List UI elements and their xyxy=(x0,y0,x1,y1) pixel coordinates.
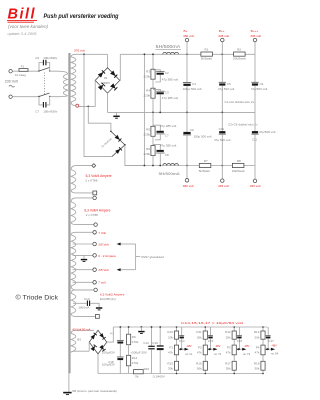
ground at C10 xyxy=(90,303,102,310)
svg-text:C1+C2 dubbel elco 2x: C1+C2 dubbel elco 2x xyxy=(225,100,255,104)
capacitor C4 xyxy=(183,54,202,112)
ground bus symbol xyxy=(113,112,119,118)
svg-text:47µ 500 volt: 47µ 500 volt xyxy=(214,138,231,142)
svg-text:-48V: -48V xyxy=(215,344,221,348)
ground at 0-2A tap xyxy=(81,255,87,261)
HV secondary winding xyxy=(71,54,76,105)
arrow 3/5V b xyxy=(117,268,121,271)
primary winding xyxy=(63,74,67,96)
wire tap 0-2A xyxy=(73,254,93,256)
node P4 out xyxy=(267,348,269,350)
svg-text:6,3 Volt/4 Ampere: 6,3 Volt/4 Ampere xyxy=(84,208,110,212)
node C8 wire xyxy=(159,165,161,167)
capacitor C5 xyxy=(218,54,235,112)
wire B3 plus xyxy=(107,327,114,342)
potentiometer P3 xyxy=(226,345,237,355)
svg-text:50k: 50k xyxy=(197,366,202,370)
capacitor C12 xyxy=(102,357,124,374)
svg-text:P2: P2 xyxy=(198,345,202,349)
diode B3 top-left xyxy=(91,333,97,339)
terminal square W6 bottom xyxy=(96,315,100,319)
terminal circle W4 top xyxy=(93,196,97,200)
wire ch2 main xyxy=(125,165,255,167)
wire P4 wiper out xyxy=(265,348,271,350)
node link top xyxy=(144,53,146,55)
node C rail top xyxy=(119,326,121,328)
svg-text:R14: R14 xyxy=(132,356,138,360)
capacitor C2 xyxy=(153,70,178,82)
diode B3 bottom-left xyxy=(91,345,97,351)
svg-text:100µ/63V: 100µ/63V xyxy=(102,363,115,367)
resistor R7 xyxy=(199,159,211,173)
svg-text:220k: 220k xyxy=(143,152,150,156)
svg-text:1000mA: 1000mA xyxy=(78,306,89,310)
svg-text:C11: C11 xyxy=(252,138,258,142)
svg-text:C10: C10 xyxy=(84,297,90,301)
wire col4 xyxy=(262,327,264,374)
node P1 out xyxy=(181,348,183,350)
svg-text:R8: R8 xyxy=(237,159,241,163)
svg-text:47k: 47k xyxy=(197,350,202,354)
svg-text:47µ 385 volt: 47µ 385 volt xyxy=(160,124,177,128)
svg-text:345 volt: 345 volt xyxy=(250,184,261,188)
svg-text:445 volt: 445 volt xyxy=(218,34,229,38)
svg-text:220k: 220k xyxy=(143,75,150,79)
svg-text:no 54: no 54 xyxy=(271,352,279,356)
wire mains top xyxy=(12,70,39,72)
resistor R2 xyxy=(233,48,246,61)
diode B1 top-right xyxy=(110,71,117,78)
heater winding W4 xyxy=(71,198,94,225)
svg-text:1A traag: 1A traag xyxy=(15,73,27,77)
mechanical link dashed xyxy=(43,73,45,96)
filament winding W5 xyxy=(71,232,94,290)
node col1 bottom xyxy=(176,373,178,375)
wire bridge top vertex xyxy=(107,54,109,67)
terminal circle 7V top xyxy=(93,231,97,235)
svg-text:C10: C10 xyxy=(219,127,225,131)
inductor L2 5H/500mA xyxy=(159,164,181,176)
wire divider chain top xyxy=(152,54,154,69)
wire ground bus xyxy=(108,111,256,113)
node col4 bottom xyxy=(262,373,264,375)
capacitor C3 xyxy=(153,89,178,112)
svg-text:R18: R18 xyxy=(254,362,260,366)
node ch2 B+ xyxy=(186,165,188,167)
wire 0V to diode D1 xyxy=(88,106,111,131)
svg-text:0 - 2 Ampere: 0 - 2 Ampere xyxy=(98,254,116,258)
switch S1b xyxy=(38,93,50,97)
resistor R18 xyxy=(254,361,265,370)
resistor R15 xyxy=(167,361,178,370)
potentiometer P1 xyxy=(168,345,179,355)
svg-text:10k/5watt: 10k/5watt xyxy=(233,57,246,61)
node C13 top xyxy=(151,326,153,328)
svg-text:47µ 385 volt: 47µ 385 volt xyxy=(160,143,177,147)
svg-text:C3: C3 xyxy=(165,90,169,94)
svg-text:480 volt: 480 volt xyxy=(183,34,194,38)
svg-text:Bill: Bill xyxy=(8,7,36,23)
svg-text:20k: 20k xyxy=(197,335,202,339)
svg-text:47µ 500 volt: 47µ 500 volt xyxy=(218,87,235,91)
node B++ xyxy=(221,53,223,55)
svg-text:345 volt: 345 volt xyxy=(250,34,261,38)
terminal mains L xyxy=(9,70,12,73)
svg-text:B+++: B+++ xyxy=(251,29,259,33)
svg-text:R12: R12 xyxy=(225,330,231,334)
terminal circle W5 end xyxy=(94,288,98,292)
svg-text:6SN7 gloeidraad: 6SN7 gloeidraad xyxy=(141,255,164,259)
resistor R13 xyxy=(254,330,265,339)
node link ch2 xyxy=(144,165,146,167)
wire tap 3/5V b xyxy=(73,269,93,271)
wire R9-R14 xyxy=(128,345,130,356)
wire LV bottom bus xyxy=(98,373,263,375)
node junction 376V xyxy=(83,53,85,55)
capacitor C16 xyxy=(237,327,243,349)
terminal mains N xyxy=(9,95,12,98)
wire 6SN7 vertical xyxy=(135,244,137,270)
svg-text:© Triode Dick: © Triode Dick xyxy=(16,294,59,302)
node R9 top xyxy=(128,326,130,328)
arrow out 2 xyxy=(213,348,217,351)
wire link to channel 2 xyxy=(143,54,145,165)
resistor R10 xyxy=(167,330,178,339)
wire P3 wiper out xyxy=(236,348,242,350)
svg-text:5k: 5k xyxy=(135,375,139,379)
wire tap 7V bottom xyxy=(73,281,93,283)
svg-text:R16: R16 xyxy=(144,367,150,371)
potentiometer P4 xyxy=(255,345,266,355)
wire 6SN7 stub xyxy=(136,255,141,257)
svg-text:480 volt: 480 volt xyxy=(183,184,194,188)
terminal B+++ xyxy=(250,29,261,54)
svg-text:3/5 Volt: 3/5 Volt xyxy=(98,268,108,272)
svg-text:F1: F1 xyxy=(21,65,25,69)
wire D output down xyxy=(125,145,144,166)
wire B3 minus down xyxy=(97,354,99,374)
svg-text:R17: R17 xyxy=(225,362,231,366)
resistor R11 xyxy=(196,330,207,339)
capacitor C15 xyxy=(208,327,214,349)
svg-text:30k: 30k xyxy=(226,366,231,370)
diode D1 xyxy=(111,131,125,145)
node C19 top xyxy=(159,326,161,328)
capacitor C14 xyxy=(179,327,185,349)
node chain2 wire xyxy=(152,165,154,167)
diode B3 bottom-right xyxy=(99,345,105,351)
capacitor C10 xyxy=(73,297,90,310)
svg-text:B3: B3 xyxy=(77,337,81,341)
svg-text:ECC88 (2x): ECC88 (2x) xyxy=(100,297,116,301)
svg-text:R13: R13 xyxy=(254,330,260,334)
wire 3/5V to 6SN7 b xyxy=(120,269,135,271)
terminal ch2 345V xyxy=(250,166,261,189)
svg-text:-48V: -48V xyxy=(271,344,277,348)
terminal ch2 445V xyxy=(218,166,229,189)
diode D2 xyxy=(112,145,125,157)
svg-text:update 3-4-2005: update 3-4-2005 xyxy=(8,32,37,36)
svg-text:220k: 220k xyxy=(143,133,150,137)
capacitor C6 100n/630V xyxy=(35,56,57,70)
svg-text:C5: C5 xyxy=(227,82,231,86)
svg-text:C4: C4 xyxy=(192,82,196,86)
svg-text:P1: P1 xyxy=(169,345,173,349)
node col1 top xyxy=(176,326,178,328)
capacitor C17 xyxy=(266,327,274,349)
svg-text:470k: 470k xyxy=(132,361,139,365)
resistor R6 xyxy=(143,146,155,156)
capacitor C7b xyxy=(153,124,176,140)
resistor R17 xyxy=(225,361,236,370)
node D cathode junction xyxy=(124,144,126,146)
LV winding W7 xyxy=(71,330,94,352)
svg-text:5H/500mA: 5H/500mA xyxy=(159,172,181,176)
svg-text:-48V: -48V xyxy=(244,344,250,348)
resistor R12 xyxy=(225,330,236,339)
wire LV top bus xyxy=(113,326,267,328)
title Bill xyxy=(7,7,37,23)
wire 3/5V to 6SN7 a xyxy=(120,243,135,245)
wire col2 xyxy=(204,327,206,374)
wire bridge left vertex down xyxy=(79,80,95,106)
wire P2 wiper out xyxy=(207,348,213,350)
resistor R14 xyxy=(127,355,139,373)
node C4 bus xyxy=(186,112,188,114)
svg-text:7 Volt: 7 Volt xyxy=(98,231,106,235)
terminal B++ xyxy=(218,29,229,54)
arrow 3/5V a xyxy=(117,243,121,246)
ground core xyxy=(63,393,71,395)
node chain top xyxy=(152,53,154,55)
node col2 top xyxy=(205,326,207,328)
svg-text:47k: 47k xyxy=(226,350,231,354)
resistor R5 xyxy=(143,126,155,136)
wire HV top to bridge xyxy=(76,53,108,55)
svg-text:C14,15,16,17 = 10µF/63 volt: C14,15,16,17 = 10µF/63 volt xyxy=(181,321,243,325)
terminal ch2 480V xyxy=(183,166,194,189)
svg-text:3/5 Volt: 3/5 Volt xyxy=(98,242,108,246)
capacitor C19 xyxy=(152,327,163,374)
svg-text:R15: R15 xyxy=(167,362,173,366)
svg-text:376 volt: 376 volt xyxy=(74,49,85,53)
svg-text:7 volt: 7 volt xyxy=(98,281,106,285)
wire chain mid xyxy=(152,79,154,88)
node D1 anode xyxy=(110,131,112,133)
svg-text:C8: C8 xyxy=(165,153,169,157)
svg-text:470k: 470k xyxy=(132,340,139,344)
svg-text:2 x KT88: 2 x KT88 xyxy=(86,213,98,217)
resistor R3 xyxy=(143,69,155,79)
capacitor C8 xyxy=(153,143,176,165)
node chain bus xyxy=(152,112,154,114)
svg-text:R16: R16 xyxy=(196,362,202,366)
svg-text:445 volt: 445 volt xyxy=(218,184,229,188)
svg-text:10k/5watt: 10k/5watt xyxy=(232,169,245,173)
resistor R16 xyxy=(134,367,150,379)
capacitor C9 xyxy=(183,112,212,165)
svg-text:R11: R11 xyxy=(196,330,202,334)
svg-text:C6: C6 xyxy=(35,56,39,60)
svg-text:C9: C9 xyxy=(190,128,194,132)
svg-text:20k: 20k xyxy=(168,335,173,339)
core ground wire xyxy=(68,373,70,392)
svg-text:R3: R3 xyxy=(146,70,150,74)
terminal diamond W3 top xyxy=(92,164,96,168)
svg-text:-48V: -48V xyxy=(186,344,192,348)
svg-text:C7: C7 xyxy=(35,109,39,113)
svg-text:C2: C2 xyxy=(165,71,169,75)
capacitor C11b rail xyxy=(102,327,124,357)
svg-text:C6: C6 xyxy=(260,82,264,86)
wire B3 left vertex xyxy=(88,342,90,351)
svg-text:C3+C4 dubbel elco 2x: C3+C4 dubbel elco 2x xyxy=(228,122,258,126)
resistor R1 xyxy=(201,48,213,61)
label ~ xyxy=(9,85,15,87)
diode B1 top-left xyxy=(98,70,105,77)
svg-text:R9: R9 xyxy=(132,335,136,339)
svg-text:100µ 500 volt: 100µ 500 volt xyxy=(193,135,211,139)
svg-text:P4: P4 xyxy=(256,345,260,349)
svg-text:+300µF 50V: +300µF 50V xyxy=(130,350,147,354)
svg-text:47µ/500 volt: 47µ/500 volt xyxy=(259,130,276,134)
svg-text:R5: R5 xyxy=(146,128,150,132)
svg-text:47k: 47k xyxy=(168,350,173,354)
node col3 bottom xyxy=(233,373,235,375)
bridge B1 outline xyxy=(95,68,120,93)
svg-text:100µ/63V: 100µ/63V xyxy=(102,350,115,354)
svg-text:230 Volt: 230 Volt xyxy=(5,80,18,84)
svg-text:100n/630v: 100n/630v xyxy=(43,56,58,60)
svg-text:30k: 30k xyxy=(168,366,173,370)
wire 376V to diode D2 xyxy=(84,54,112,156)
wire switch to primary bottom xyxy=(50,96,68,97)
terminal B+ xyxy=(183,29,194,54)
wire mains bottom xyxy=(12,96,39,98)
svg-text:100µ/ 500 volt: 100µ/ 500 volt xyxy=(183,87,202,91)
wire P1 wiper out xyxy=(179,348,185,350)
diode B3 top-right xyxy=(99,333,105,339)
svg-text:C16: C16 xyxy=(237,339,243,343)
wire chain 2 bottom xyxy=(152,156,154,166)
svg-text:47µ 385 volt: 47µ 385 volt xyxy=(162,96,179,100)
capacitor C7 100n/630V xyxy=(35,97,57,113)
terminal circle 7V bottom xyxy=(93,281,97,285)
switch S1a xyxy=(38,68,50,72)
svg-text:no 73: no 73 xyxy=(243,352,251,356)
ground LV top bus xyxy=(138,326,144,333)
resistor R16b xyxy=(196,361,207,370)
node C3 bus xyxy=(159,112,161,114)
wire DC+ top rail xyxy=(120,53,255,55)
terminal square W3 bottom xyxy=(93,191,97,195)
svg-text:C7: C7 xyxy=(165,134,169,138)
svg-text:R2: R2 xyxy=(237,48,241,52)
svg-text:B++: B++ xyxy=(219,29,225,33)
wire tap 3/5V a xyxy=(73,243,93,245)
svg-text:R6: R6 xyxy=(146,147,150,151)
wire col3 xyxy=(233,327,235,374)
capacitor C13 xyxy=(143,327,155,374)
svg-text:C13: C13 xyxy=(143,341,149,345)
svg-text:40 Volt 50 mA: 40 Volt 50 mA xyxy=(72,328,90,332)
svg-text:20k: 20k xyxy=(226,335,231,339)
svg-text:30k: 30k xyxy=(255,366,260,370)
svg-text:C14: C14 xyxy=(179,339,185,343)
svg-text:no 72: no 72 xyxy=(214,352,222,356)
node HV 0-tap xyxy=(76,104,79,107)
capacitor C10b xyxy=(214,112,231,165)
heater winding W3 xyxy=(71,166,93,193)
svg-text:no 11: no 11 xyxy=(185,352,193,356)
svg-text:P3: P3 xyxy=(227,345,231,349)
svg-text:NB (stroom- pad naar massa/aar: NB (stroom- pad naar massa/aarde) xyxy=(72,389,117,393)
node C5 bus xyxy=(221,112,223,114)
svg-text:5k/5watt: 5k/5watt xyxy=(201,57,212,61)
svg-text:(voor twee kanalen): (voor twee kanalen) xyxy=(8,24,48,29)
svg-text:R7: R7 xyxy=(204,159,208,163)
wire divider chain 2 top xyxy=(152,112,154,126)
arrow out 4 xyxy=(271,348,275,351)
svg-text:C17: C17 xyxy=(268,339,274,343)
terminal circle 0-2A xyxy=(93,254,97,258)
resistor R9 xyxy=(127,327,139,345)
node P2 out xyxy=(210,348,212,350)
svg-text:5k/5watt: 5k/5watt xyxy=(199,169,210,173)
potentiometer P2 xyxy=(197,345,208,355)
wire chain 2 mid xyxy=(152,136,154,145)
fuse F1 xyxy=(15,65,28,78)
svg-text:(+): (+) xyxy=(110,331,114,335)
arrow out 3 xyxy=(242,348,246,351)
svg-text:R1: R1 xyxy=(205,48,209,52)
inductor L1 5H/500mA xyxy=(156,44,182,54)
resistor R4 xyxy=(143,88,155,98)
svg-text:5H/500mA: 5H/500mA xyxy=(156,44,181,49)
svg-text:47µ 385 volt: 47µ 385 volt xyxy=(162,77,179,81)
wire switch to primary top xyxy=(50,71,68,74)
svg-text:R10: R10 xyxy=(167,330,173,334)
node junction 0V xyxy=(87,106,89,108)
diode B1 bottom-left xyxy=(98,83,105,90)
svg-text:47k: 47k xyxy=(255,350,260,354)
wire bridge bottom vertex xyxy=(107,93,109,112)
wire bridge right vertex up xyxy=(119,54,122,80)
svg-text:C19: C19 xyxy=(152,341,158,345)
svg-text:C15: C15 xyxy=(208,339,214,343)
wire col1 xyxy=(176,327,178,374)
diode B1 bottom-right xyxy=(110,83,117,90)
capacitor C11 xyxy=(251,112,275,165)
arrow out 1 xyxy=(185,348,189,351)
svg-text:6,3 Volt/2 Ampere: 6,3 Volt/2 Ampere xyxy=(100,293,125,297)
capacitor C6b xyxy=(251,54,268,112)
svg-text:R4: R4 xyxy=(146,89,150,93)
bridge B3 outline xyxy=(89,330,107,354)
node ch2 B++ xyxy=(221,165,223,167)
heater winding W6 ECC88 xyxy=(71,290,95,317)
node P3 out xyxy=(239,348,241,350)
terminal circle W4 bottom xyxy=(94,223,98,227)
svg-text:B+: B+ xyxy=(184,29,188,33)
svg-text:47µ/500 volt: 47µ/500 volt xyxy=(251,87,268,91)
node col2 bottom xyxy=(205,373,207,375)
terminal circle 3/5V b xyxy=(93,268,97,272)
svg-text:20k: 20k xyxy=(255,335,260,339)
svg-text:Push pull versterker voeding: Push pull versterker voeding xyxy=(44,13,119,20)
node col4 top xyxy=(262,326,264,328)
node col3 top xyxy=(233,326,235,328)
